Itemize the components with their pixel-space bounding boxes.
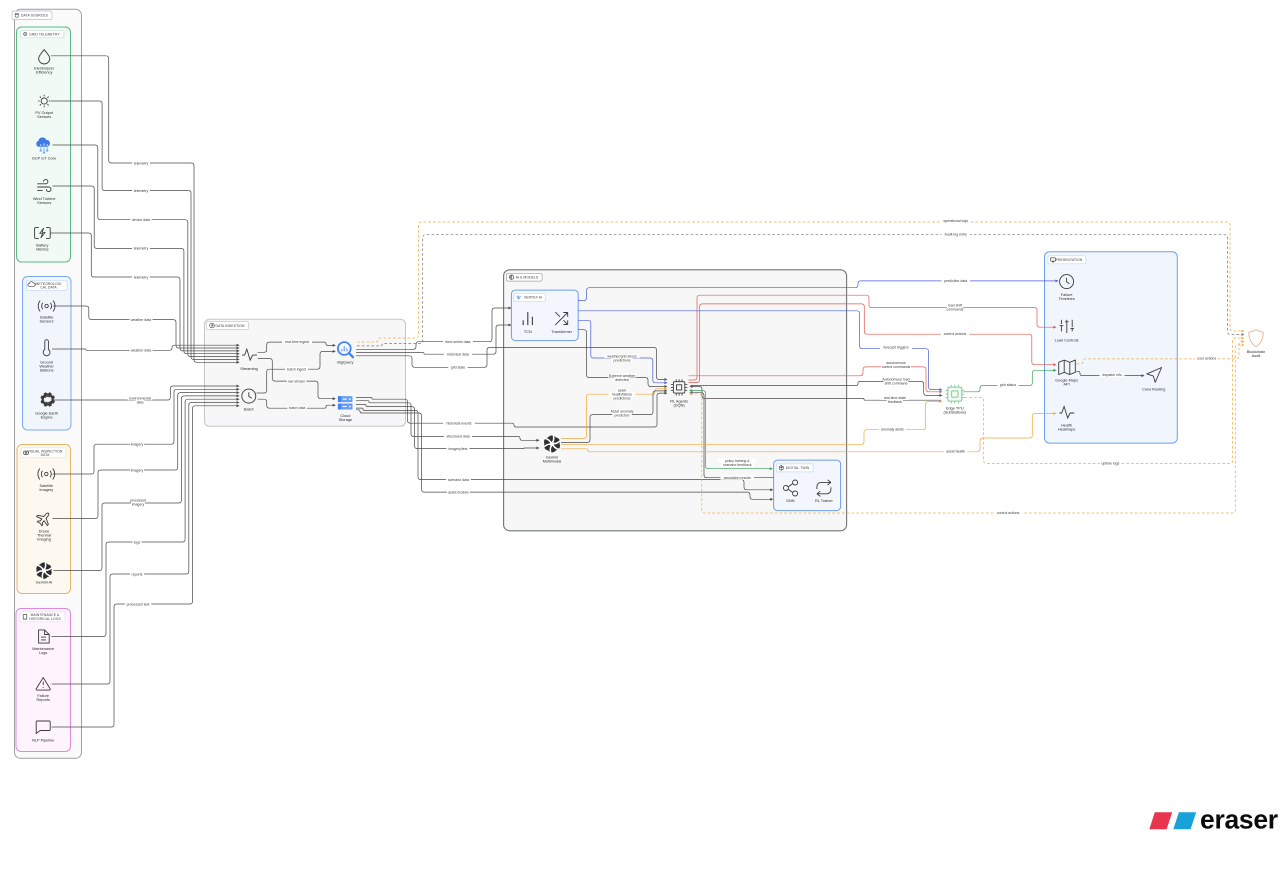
svg-text:Metrics: Metrics bbox=[36, 248, 48, 252]
label VERTEX AI bbox=[514, 293, 546, 301]
wire simulation results bbox=[691, 392, 774, 478]
svg-text:Reports: Reports bbox=[36, 698, 50, 702]
node Failure Reports icon bbox=[36, 678, 50, 691]
wire Ground weather data bbox=[52, 344, 239, 350]
label AI & MODELS bbox=[507, 273, 542, 281]
node Google Earth Engine label bbox=[35, 411, 58, 419]
wire historical events bbox=[356, 392, 667, 427]
node Satellite Sensors icon bbox=[38, 301, 55, 312]
wire control actions red bbox=[689, 304, 1056, 383]
svg-text:user actions: user actions bbox=[1197, 357, 1216, 361]
svg-text:anomaly alerts: anomaly alerts bbox=[881, 428, 904, 432]
svg-text:DATA INGESTION: DATA INGESTION bbox=[216, 324, 245, 328]
node Edge TPU icon bbox=[945, 385, 964, 404]
node GNN icon bbox=[783, 480, 797, 496]
wire Electrolyzer telemetry bbox=[51, 56, 239, 364]
wire dispatch info bbox=[1076, 372, 1143, 377]
svg-text:data: data bbox=[137, 400, 144, 404]
svg-text:imagery: imagery bbox=[132, 502, 145, 506]
wire weather-grid stress predictions bbox=[578, 320, 666, 384]
node Gemini AI label bbox=[36, 580, 53, 584]
node Electrolyzer Efficiency icon bbox=[39, 50, 50, 64]
edge label telemetry 1 bbox=[132, 161, 150, 166]
wire structured data bbox=[356, 401, 539, 442]
wire real-time state feedback bbox=[691, 386, 942, 401]
edge label anomaly alerts bbox=[879, 427, 906, 432]
svg-text:NLP Pipeline: NLP Pipeline bbox=[32, 738, 54, 742]
svg-text:predictions: predictions bbox=[614, 358, 631, 362]
svg-text:Logs: Logs bbox=[39, 651, 47, 655]
edge label simulation results bbox=[721, 476, 755, 481]
node Wind Turbine Sensors icon bbox=[37, 179, 51, 191]
edge label Autonomous load shift command bbox=[882, 377, 910, 386]
svg-text:historical data: historical data bbox=[447, 353, 469, 357]
svg-text:simulation results: simulation results bbox=[724, 476, 751, 480]
edge label dispatch info bbox=[1100, 373, 1125, 378]
edge label weather data 1 bbox=[130, 317, 153, 322]
node PV Output Sensors label bbox=[35, 111, 54, 119]
node BigQuery icon bbox=[338, 342, 353, 357]
wire historical data bbox=[356, 324, 511, 354]
node Crew Routing icon bbox=[1147, 368, 1162, 383]
node Satellite Sensors label bbox=[40, 315, 54, 323]
edge label historical data bbox=[444, 352, 472, 357]
svg-text:Heatmaps: Heatmaps bbox=[1058, 428, 1076, 432]
node RL Trainer icon bbox=[817, 480, 831, 497]
edge label batch ingest bbox=[285, 367, 308, 372]
node Battery Metrics label bbox=[36, 244, 48, 252]
svg-text:reports: reports bbox=[132, 572, 143, 576]
node Maintenance Logs icon bbox=[39, 630, 50, 643]
edge label forecast triggers bbox=[880, 345, 912, 350]
node Load Controls icon bbox=[1060, 320, 1074, 333]
node GCP IoT Core icon bbox=[36, 137, 50, 153]
svg-text:detected: detected bbox=[615, 378, 628, 382]
svg-text:forecast triggers: forecast triggers bbox=[883, 346, 908, 350]
wire time-series data bbox=[356, 307, 511, 349]
svg-text:HISTORICAL LOGS: HISTORICAL LOGS bbox=[29, 617, 61, 621]
edge label device data bbox=[130, 218, 151, 223]
svg-text:logs: logs bbox=[134, 540, 141, 544]
edge label imagery/text bbox=[447, 446, 470, 451]
node Failure Timelines icon bbox=[1060, 275, 1074, 289]
edge label processed imagery bbox=[129, 498, 147, 507]
wire Battery telemetry bbox=[50, 233, 239, 352]
edge label uptime logs bbox=[1100, 461, 1121, 466]
wire grid state bbox=[356, 347, 667, 380]
edge label historical events bbox=[443, 421, 475, 426]
wire audit log entry bbox=[357, 235, 1244, 346]
svg-text:RL Trainer: RL Trainer bbox=[815, 499, 834, 503]
node Cloud Storage icon bbox=[338, 396, 353, 409]
node Streaming icon bbox=[242, 349, 257, 360]
wire Satellite imagery bbox=[53, 388, 239, 474]
wire load shift commands bbox=[689, 295, 1056, 380]
svg-text:DATA SOURCES: DATA SOURCES bbox=[21, 14, 49, 18]
svg-text:asset models: asset models bbox=[448, 490, 469, 494]
wire uptime logs bbox=[965, 337, 1244, 464]
node Drone Thermal Imaging icon bbox=[34, 509, 54, 529]
svg-text:Sensors: Sensors bbox=[37, 115, 51, 119]
wire asset health failure predictions bbox=[561, 388, 667, 439]
svg-text:Load Controls: Load Controls bbox=[1055, 338, 1079, 342]
svg-text:operational logs: operational logs bbox=[943, 219, 968, 223]
svg-text:Crew Routing: Crew Routing bbox=[1142, 388, 1165, 392]
label MAINTENANCE & HISTORICAL LOGS bbox=[20, 612, 65, 622]
node Electrolyzer Efficiency label bbox=[34, 67, 55, 75]
edge label logs bbox=[133, 540, 142, 545]
wire raw stream bbox=[258, 359, 335, 400]
edge label Asset anomaly prediction bbox=[610, 409, 635, 418]
node Failure Timelines label bbox=[1058, 293, 1074, 301]
svg-text:imagery: imagery bbox=[131, 468, 144, 472]
svg-text:feedback: feedback bbox=[888, 400, 902, 404]
edge label control actions audit bbox=[994, 510, 1022, 515]
svg-text:batch data: batch data bbox=[289, 406, 305, 410]
node TCN icon bbox=[523, 312, 532, 325]
node Wind Turbine Sensors label bbox=[33, 197, 56, 205]
node Cloud Storage label bbox=[339, 414, 352, 422]
svg-text:telemetry: telemetry bbox=[134, 275, 149, 279]
label METEOROLOGICAL DATA bbox=[27, 280, 68, 290]
wire Satellite weather data bbox=[53, 306, 239, 349]
svg-text:Stations: Stations bbox=[40, 369, 54, 373]
edge label telemetry 4 bbox=[132, 275, 150, 280]
svg-text:(DQN): (DQN) bbox=[674, 404, 686, 408]
svg-text:asset health: asset health bbox=[946, 450, 965, 454]
svg-text:Streaming: Streaming bbox=[240, 367, 258, 371]
wire asset health bbox=[561, 413, 1056, 452]
edge label weather data 2 bbox=[130, 348, 153, 353]
svg-text:VERTEX AI: VERTEX AI bbox=[524, 296, 542, 300]
wire real-time ingest bbox=[258, 342, 335, 352]
node Drone Thermal Imaging label bbox=[37, 529, 51, 541]
label DIGITAL TWIN bbox=[776, 464, 813, 472]
node Maintenance Logs label bbox=[32, 647, 54, 655]
wire policy training scenario feedback bbox=[690, 390, 772, 470]
label PRESENTATION bbox=[1048, 256, 1086, 264]
node RL Agents icon bbox=[671, 379, 687, 395]
group DIGITAL TWIN bbox=[774, 460, 841, 511]
wire batch ingest bbox=[257, 350, 335, 393]
wire prediction data bbox=[578, 280, 1057, 301]
svg-text:DIGITAL TWIN: DIGITAL TWIN bbox=[786, 466, 810, 470]
wire GCP IoT device data bbox=[53, 145, 239, 358]
edge label operational logs bbox=[941, 219, 971, 224]
svg-text:CAL DATA: CAL DATA bbox=[40, 286, 57, 290]
svg-text:prediction: prediction bbox=[614, 414, 629, 418]
svg-text:GNN: GNN bbox=[786, 499, 795, 503]
svg-text:control actions: control actions bbox=[944, 332, 967, 336]
svg-text:(Substations): (Substations) bbox=[943, 410, 966, 414]
node Ground Weather Stations label bbox=[39, 361, 54, 373]
edge label telemetry 3 bbox=[132, 246, 150, 251]
svg-text:Timelines: Timelines bbox=[1058, 297, 1074, 301]
group AI & MODELS bbox=[504, 270, 847, 531]
node RL Agents label bbox=[670, 400, 688, 408]
svg-text:grid status: grid status bbox=[1000, 383, 1016, 387]
node BigQuery label bbox=[337, 361, 353, 365]
node Blockchain Audit label bbox=[1247, 350, 1266, 358]
svg-text:processed text: processed text bbox=[127, 602, 150, 606]
wire Drone imagery bbox=[53, 392, 239, 519]
edge label asset models bbox=[447, 490, 470, 495]
svg-text:control actions: control actions bbox=[997, 511, 1020, 515]
svg-text:dispatch info: dispatch info bbox=[1102, 373, 1122, 377]
node Health Heatmaps icon bbox=[1059, 407, 1074, 419]
node GNN label bbox=[786, 499, 795, 503]
edge label prediction data bbox=[942, 279, 970, 284]
node Google Maps API icon bbox=[1059, 360, 1076, 374]
svg-text:Engine: Engine bbox=[41, 415, 53, 419]
node Batch icon bbox=[242, 389, 256, 403]
node Blockchain Audit icon bbox=[1249, 329, 1263, 346]
edge label imagery 1 bbox=[130, 442, 144, 447]
node Transformer label bbox=[551, 330, 573, 334]
node Crew Routing label bbox=[1142, 388, 1165, 392]
edge label telemetry 2 bbox=[132, 188, 150, 193]
svg-text:GRID TELEMETRY: GRID TELEMETRY bbox=[29, 32, 60, 36]
node Load Controls label bbox=[1055, 338, 1079, 342]
svg-text:imagery/text: imagery/text bbox=[448, 447, 467, 451]
group MAINTENANCE & HISTORICAL LOGS bbox=[16, 609, 71, 752]
edge label raw stream bbox=[287, 379, 307, 384]
node Satellite Imagery label bbox=[39, 484, 53, 492]
svg-text:Efficiency: Efficiency bbox=[36, 71, 52, 75]
node PV Output Sensors icon bbox=[38, 95, 50, 107]
group METEOROLOGICAL DATA bbox=[23, 277, 72, 431]
group VISUAL INSPECTION DATA bbox=[17, 445, 71, 594]
svg-text:uptime logs: uptime logs bbox=[1101, 462, 1119, 466]
edge label reports bbox=[130, 572, 144, 577]
group DATA SOURCES frame bbox=[15, 9, 82, 758]
edge label imagery 2 bbox=[130, 468, 144, 473]
svg-text:Imagery: Imagery bbox=[39, 488, 53, 492]
wire NLP processed text bbox=[52, 405, 239, 727]
wire anomaly alerts bbox=[561, 401, 942, 445]
wire autonomous control commands bbox=[689, 367, 942, 393]
svg-text:Gemini AI: Gemini AI bbox=[36, 580, 53, 584]
svg-text:shift command: shift command bbox=[885, 381, 908, 385]
edge label time-series data bbox=[443, 340, 473, 345]
node Satellite Imagery icon bbox=[38, 469, 55, 480]
node RL Trainer label bbox=[815, 499, 834, 503]
wire control actions audit bbox=[690, 344, 1244, 513]
svg-text:AI & MODELS: AI & MODELS bbox=[516, 276, 539, 280]
svg-text:scenario feedback: scenario feedback bbox=[723, 463, 752, 467]
svg-text:BigQuery: BigQuery bbox=[337, 361, 353, 365]
svg-text:weather data: weather data bbox=[131, 349, 151, 353]
node Ground Weather Stations icon bbox=[43, 340, 50, 356]
node Gemini Multimodal label bbox=[543, 456, 562, 464]
svg-text:commands: commands bbox=[946, 307, 963, 311]
edge label processed text bbox=[125, 602, 152, 607]
node NLP Pipeline icon bbox=[36, 721, 50, 734]
node Edge TPU label bbox=[943, 406, 966, 414]
wire scenario data bbox=[356, 408, 772, 491]
svg-text:control commands: control commands bbox=[882, 365, 911, 369]
svg-text:Audit: Audit bbox=[1252, 354, 1262, 358]
wire GEE environmental data bbox=[54, 385, 239, 400]
svg-text:TCN: TCN bbox=[524, 330, 532, 334]
node Gemini AI icon bbox=[36, 562, 52, 579]
edge label Audit log entry bbox=[942, 232, 970, 237]
svg-text:API: API bbox=[1063, 383, 1069, 387]
edge label policy training & scenario feedback bbox=[718, 459, 757, 468]
svg-text:device data: device data bbox=[132, 218, 150, 222]
svg-text:grid state: grid state bbox=[451, 366, 465, 370]
edge label grid status bbox=[997, 383, 1018, 388]
svg-text:Audit log entry: Audit log entry bbox=[945, 233, 968, 237]
wire PV telemetry bbox=[51, 101, 239, 360]
svg-text:Batch: Batch bbox=[244, 408, 254, 412]
node GCP IoT Core label bbox=[32, 156, 56, 160]
node Batch label bbox=[244, 408, 254, 412]
svg-text:eraser: eraser bbox=[1200, 805, 1278, 835]
wire extreme weather detected bbox=[578, 330, 666, 388]
svg-text:historical events: historical events bbox=[446, 422, 471, 426]
node Google Maps API label bbox=[1055, 379, 1078, 387]
node Streaming label bbox=[240, 367, 258, 371]
edge label real-time ingest bbox=[282, 340, 312, 345]
svg-text:GCP IoT Core: GCP IoT Core bbox=[32, 156, 56, 160]
edge label weather/grid stress predictions bbox=[604, 354, 639, 363]
svg-text:Imaging: Imaging bbox=[37, 537, 51, 541]
svg-text:prediction data: prediction data bbox=[944, 279, 967, 283]
node NLP Pipeline label bbox=[32, 738, 54, 742]
svg-text:raw stream: raw stream bbox=[288, 379, 305, 383]
node Failure Reports label bbox=[36, 694, 50, 702]
svg-text:batch ingest: batch ingest bbox=[287, 367, 306, 371]
edge label grid state bbox=[448, 365, 468, 370]
node Gemini Multimodal icon bbox=[544, 435, 561, 453]
wire Failure reports bbox=[52, 402, 239, 685]
svg-text:structured data: structured data bbox=[446, 435, 469, 439]
edge label scenario data bbox=[446, 477, 471, 482]
wire Wind telemetry bbox=[53, 186, 239, 355]
svg-text:Multimodal: Multimodal bbox=[543, 460, 562, 464]
svg-text:imagery: imagery bbox=[131, 443, 144, 447]
wire asset models bbox=[356, 410, 772, 501]
edge label Extreme weather detected bbox=[608, 373, 636, 382]
label VISUAL INSPECTION DATA bbox=[21, 448, 66, 458]
edge label environmental data bbox=[128, 396, 153, 405]
group GRID TELEMETRY bbox=[17, 27, 71, 262]
svg-text:telemetry: telemetry bbox=[134, 161, 149, 165]
svg-text:time-series data: time-series data bbox=[446, 340, 471, 344]
svg-text:telemetry: telemetry bbox=[134, 189, 149, 193]
edge label load shift commands bbox=[945, 303, 965, 312]
svg-text:Sensors: Sensors bbox=[37, 201, 51, 205]
edge label batch data bbox=[287, 406, 307, 411]
svg-text:DATA: DATA bbox=[41, 453, 50, 457]
edge label structured data bbox=[444, 434, 472, 439]
svg-text:weather data: weather data bbox=[131, 318, 151, 322]
wire user actions bbox=[1077, 341, 1244, 364]
edge label autonomous control commands bbox=[881, 360, 911, 369]
label DATA SOURCES bbox=[12, 11, 52, 20]
group PRESENTATION bbox=[1045, 252, 1178, 443]
label GRID TELEMETRY bbox=[21, 30, 65, 38]
edge label real-time state feedback bbox=[881, 396, 909, 405]
edge label user actions bbox=[1195, 356, 1218, 361]
wire batch data bbox=[258, 399, 335, 408]
node Battery Metrics icon bbox=[35, 228, 51, 239]
wire operational logs bbox=[357, 222, 1244, 342]
wire forecast triggers bbox=[578, 311, 941, 391]
svg-text:real-time ingest: real-time ingest bbox=[285, 340, 309, 344]
group VERTEX AI bbox=[511, 290, 578, 341]
node Google Earth Engine icon bbox=[40, 392, 55, 407]
edge label asset health/failure predictions bbox=[609, 388, 636, 401]
edge label asset health bbox=[944, 449, 967, 454]
edge label control actions red bbox=[941, 332, 969, 337]
svg-text:scenario data: scenario data bbox=[448, 478, 469, 482]
wire imagery-text bbox=[356, 404, 539, 449]
group DATA INGESTION bbox=[205, 319, 406, 426]
wire asset anomaly prediction bbox=[561, 390, 667, 443]
node Transformer icon bbox=[555, 312, 567, 325]
svg-text:Sensors: Sensors bbox=[40, 319, 54, 323]
svg-text:Storage: Storage bbox=[339, 418, 352, 422]
svg-text:PRESENTATION: PRESENTATION bbox=[1056, 258, 1083, 262]
label DATA INGESTION bbox=[207, 322, 249, 330]
node Health Heatmaps label bbox=[1058, 424, 1076, 432]
node TCN label bbox=[524, 330, 532, 334]
wire grid status bbox=[964, 369, 1056, 392]
svg-text:Transformer: Transformer bbox=[551, 330, 573, 334]
wire GeminiAI processed imagery bbox=[54, 395, 239, 571]
svg-text:predictions: predictions bbox=[614, 397, 631, 401]
svg-text:telemetry: telemetry bbox=[134, 247, 149, 251]
wire autonomous load shift command bbox=[691, 381, 942, 396]
eraser logo bbox=[1149, 805, 1277, 835]
wire Maintenance logs bbox=[52, 398, 239, 636]
